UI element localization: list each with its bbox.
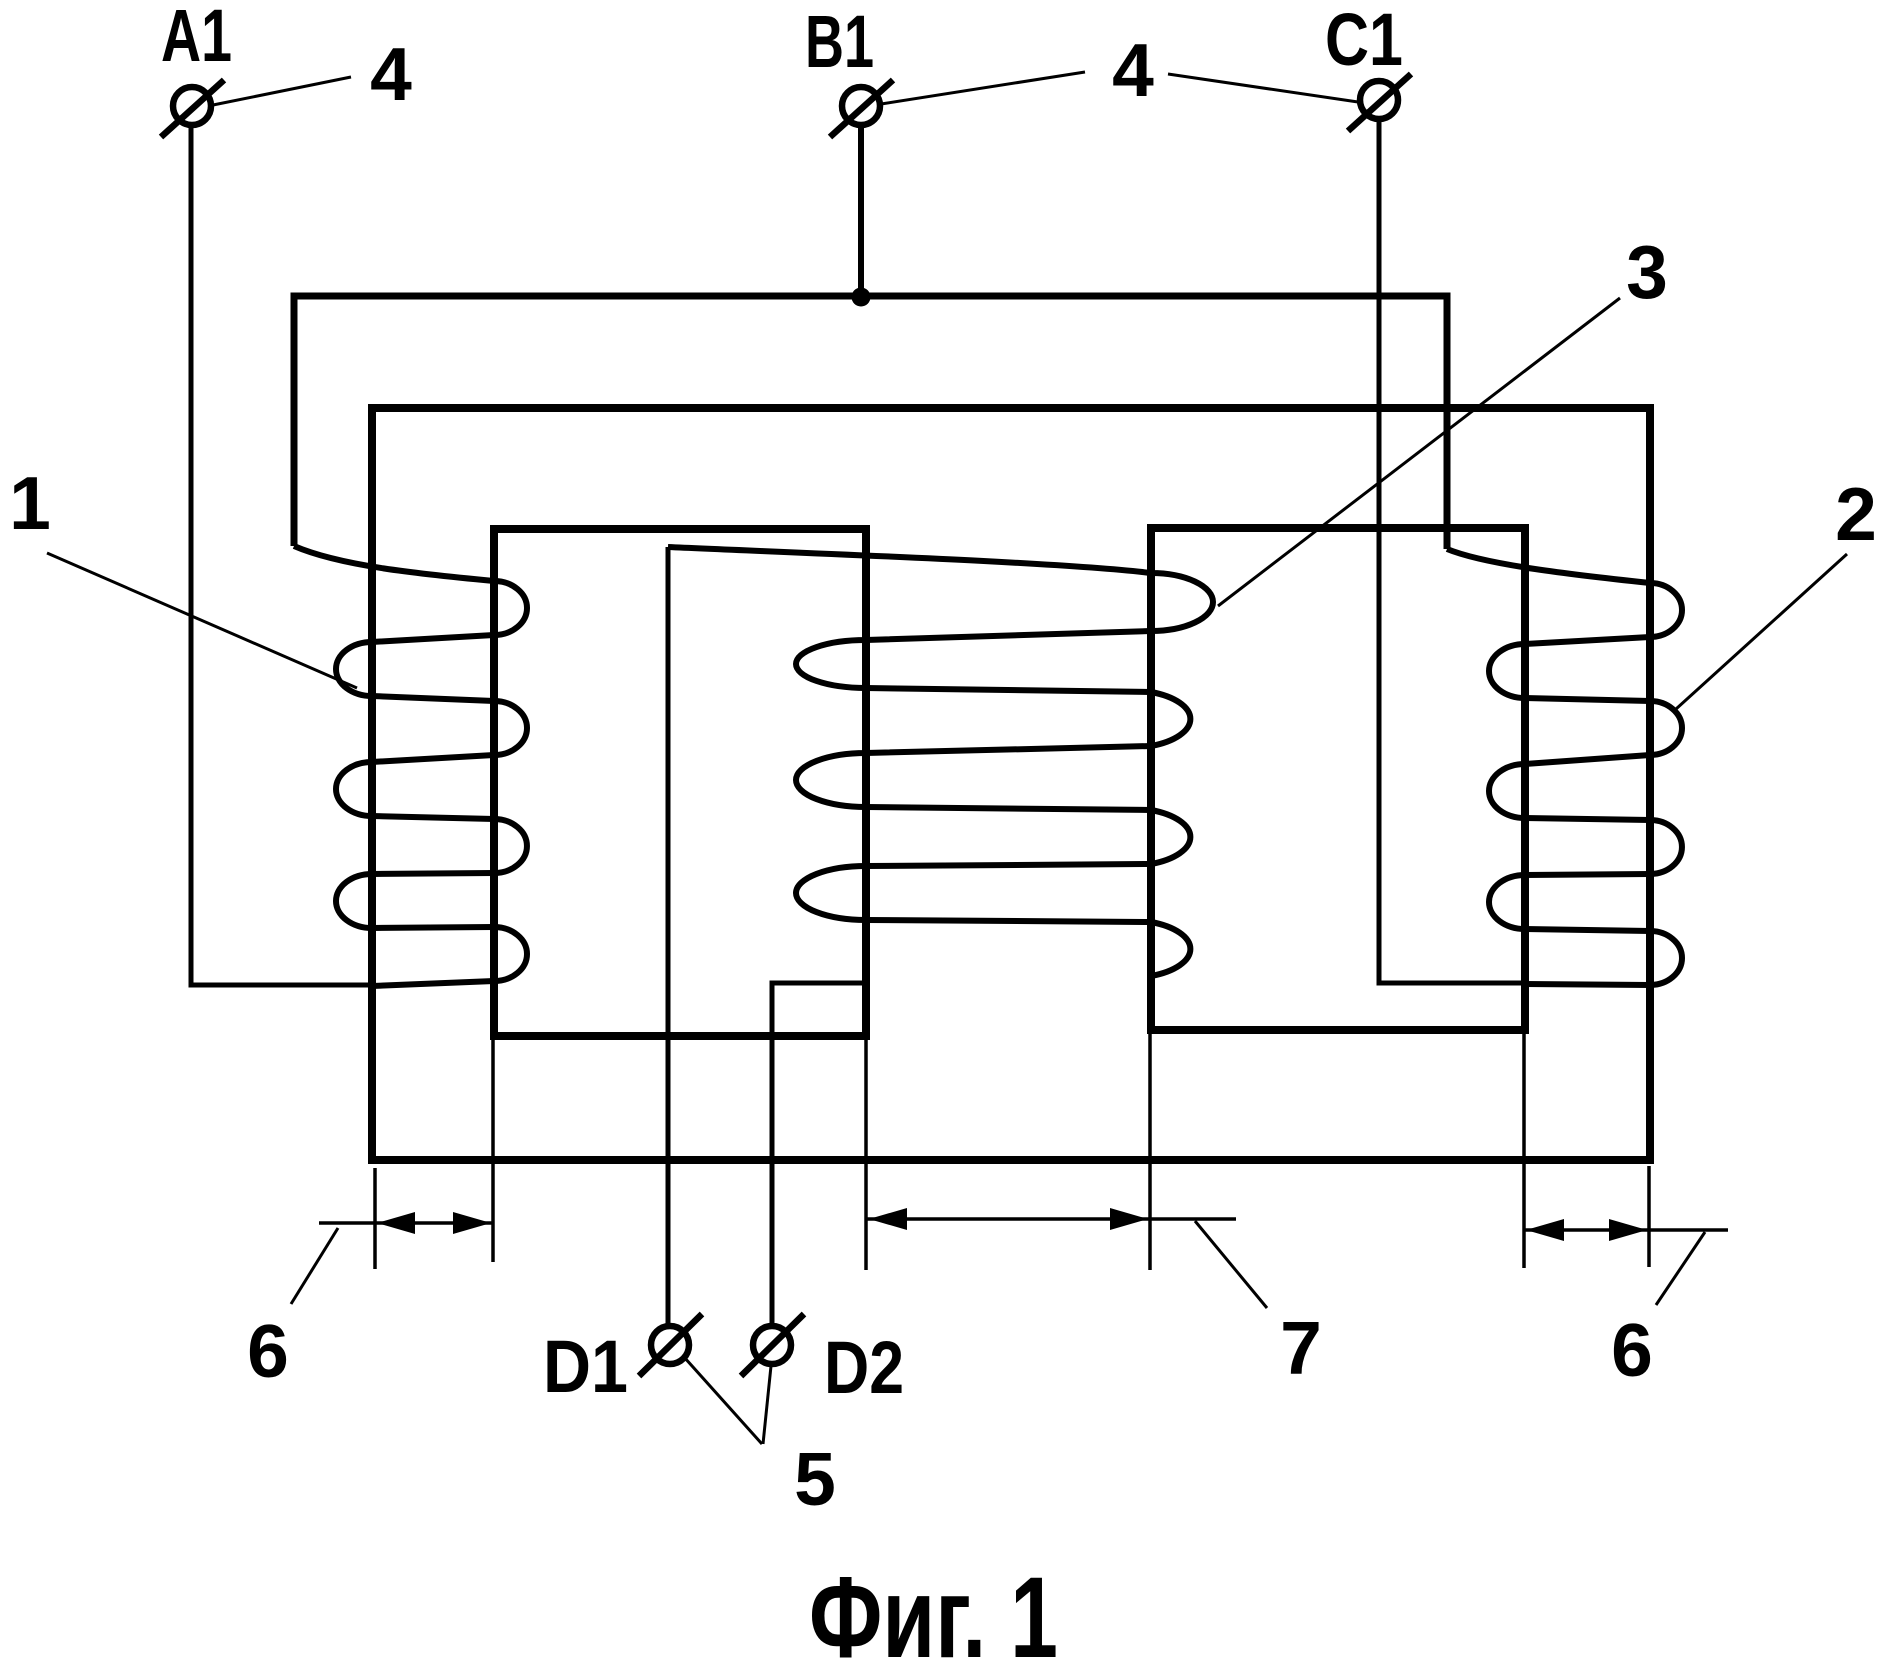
extension line left window left — [491, 1040, 495, 1262]
leader 5 from D1 — [684, 1357, 762, 1444]
svg-text:5: 5 — [794, 1437, 836, 1521]
svg-text:4: 4 — [370, 32, 412, 116]
core window right — [1151, 528, 1525, 1030]
leader to 6 right — [1656, 1232, 1705, 1305]
leader 4 to C1 — [1168, 74, 1358, 102]
extension line left edge — [373, 1168, 377, 1269]
svg-text:6: 6 — [1611, 1308, 1653, 1392]
leader to 3 — [1218, 298, 1620, 606]
leader to 1 — [47, 553, 357, 688]
winding 3 (middle limb) — [668, 547, 1213, 1030]
leader 4 to B1 — [881, 72, 1085, 104]
svg-text:D2: D2 — [824, 1326, 904, 1409]
extension line left window right — [864, 1040, 868, 1270]
leader to 6 left — [291, 1228, 338, 1304]
svg-text:4: 4 — [1112, 28, 1154, 112]
leader to 2 — [1676, 554, 1847, 709]
dimension 6 right — [1524, 1228, 1728, 1232]
dimension 7 — [867, 1217, 1236, 1221]
svg-text:6: 6 — [247, 1309, 289, 1393]
svg-text:Фиг. 1: Фиг. 1 — [809, 1554, 1058, 1661]
wire B1 down to bus — [858, 125, 864, 296]
svg-text:C1: C1 — [1325, 0, 1403, 81]
wire bus top — [294, 296, 1447, 549]
extension line right window left — [1148, 1034, 1152, 1270]
junction dot B1/bus — [852, 288, 871, 307]
svg-text:B1: B1 — [805, 0, 874, 83]
winding 2 (right limb) — [1447, 549, 1682, 985]
terminal C1 — [1348, 74, 1411, 131]
core window left — [494, 529, 866, 1036]
svg-text:A1: A1 — [161, 0, 232, 77]
svg-text:3: 3 — [1626, 230, 1668, 314]
svg-text:D1: D1 — [543, 1325, 628, 1408]
winding 1 (left limb) — [294, 546, 527, 986]
terminal B1 — [830, 80, 893, 137]
leader to 7 — [1195, 1221, 1267, 1308]
leader to 4 left — [213, 77, 351, 105]
wire C1 down and to winding 2 — [1379, 119, 1525, 983]
wire D1 — [666, 547, 671, 1326]
svg-text:1: 1 — [9, 461, 51, 545]
terminal D2 — [741, 1314, 804, 1376]
terminal A1 — [161, 80, 224, 137]
wire D2 with step — [772, 983, 866, 1326]
core outer — [372, 408, 1650, 1160]
extension line right window right — [1522, 1034, 1526, 1268]
svg-text:2: 2 — [1835, 472, 1877, 556]
dimension 6 left — [319, 1221, 493, 1225]
wire A1 down and to core — [191, 125, 369, 985]
svg-text:7: 7 — [1280, 1306, 1322, 1390]
extension line right edge — [1647, 1166, 1651, 1267]
terminal D1 — [639, 1314, 702, 1376]
leader 5 from D2 — [763, 1366, 771, 1444]
